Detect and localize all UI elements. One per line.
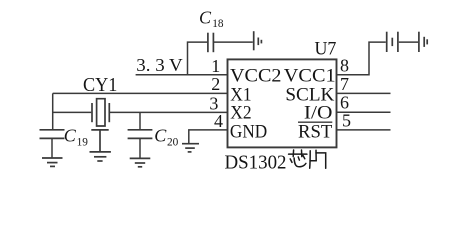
wire battery to ground bbox=[399, 41, 418, 43]
battery BT1 backup cell bbox=[387, 32, 398, 52]
svg-text:VCC1: VCC1 bbox=[284, 66, 336, 87]
svg-text:1: 1 bbox=[211, 56, 220, 76]
svg-text:3. 3 V: 3. 3 V bbox=[136, 55, 182, 75]
svg-text:VCC2: VCC2 bbox=[230, 66, 282, 87]
svg-text:GND: GND bbox=[230, 122, 267, 143]
op chip U1 box DS1302 bbox=[228, 59, 337, 147]
svg-text:5: 5 bbox=[342, 110, 351, 130]
wire C19 to ground bbox=[51, 138, 53, 158]
ground (right of C18) bbox=[254, 31, 262, 50]
svg-text:I/O: I/O bbox=[304, 103, 333, 124]
crystal CY1 bbox=[92, 99, 109, 126]
caption hanzi xin bbox=[289, 150, 307, 167]
ground (pin4) bbox=[182, 144, 199, 152]
wire C18 drop to 3.3V rail and C18 left lead bbox=[188, 42, 208, 75]
ground (below crystal) bbox=[90, 130, 111, 161]
svg-text:C: C bbox=[64, 125, 77, 145]
wire left vertical X1 branch down to C19 bbox=[52, 93, 54, 129]
wire pin7 SCLK bbox=[337, 92, 391, 94]
wire pin4 GND bbox=[189, 130, 228, 144]
wire crystal left lead bbox=[53, 111, 92, 113]
wire C20 to ground bbox=[139, 138, 141, 158]
svg-text:C: C bbox=[199, 8, 212, 28]
overline of RST bbox=[298, 121, 332, 123]
ground (right of battery) bbox=[419, 32, 427, 52]
svg-text:18: 18 bbox=[212, 18, 224, 30]
wire pin5 RST bbox=[337, 129, 391, 131]
svg-text:8: 8 bbox=[340, 55, 349, 75]
svg-text:RST: RST bbox=[298, 122, 333, 143]
capacitor C19 bbox=[40, 130, 65, 139]
svg-text:U7: U7 bbox=[315, 38, 337, 59]
ground (below C20) bbox=[130, 158, 151, 166]
wire pin2 X1 bbox=[53, 92, 228, 94]
label C19 bbox=[64, 125, 89, 148]
wire C18 right lead bbox=[213, 41, 252, 43]
svg-text:20: 20 bbox=[167, 136, 179, 148]
ground (below C19) bbox=[42, 158, 63, 166]
wire C20 drop from X2 line bbox=[139, 112, 141, 129]
caption hanzi pian bbox=[310, 150, 326, 168]
capacitor C20 bbox=[128, 130, 153, 139]
label C18 bbox=[199, 8, 224, 30]
wire pin8 VCC1 riser bbox=[337, 42, 386, 75]
wire pin1 3.3V rail bbox=[136, 74, 228, 76]
svg-text:7: 7 bbox=[340, 74, 349, 94]
svg-text:CY1: CY1 bbox=[83, 75, 117, 96]
svg-text:19: 19 bbox=[77, 136, 89, 148]
svg-text:DS1302: DS1302 bbox=[225, 151, 287, 173]
capacitor C18 bbox=[208, 33, 214, 53]
wire pin6 I/O bbox=[337, 111, 391, 113]
svg-text:C: C bbox=[154, 125, 167, 145]
svg-text:2: 2 bbox=[211, 74, 220, 94]
svg-text:4: 4 bbox=[214, 111, 223, 131]
wire pin3 X2 to crystal right bbox=[109, 111, 227, 113]
svg-text:X2: X2 bbox=[230, 103, 251, 124]
label C20 bbox=[154, 125, 178, 148]
